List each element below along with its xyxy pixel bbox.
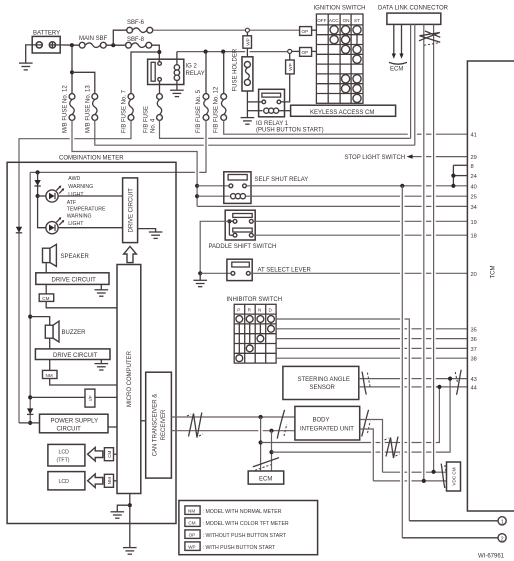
svg-text:40: 40 bbox=[471, 184, 477, 190]
wire F/B fuse7 to meter internal supply bbox=[19, 120, 131, 423]
block arrow up (micro to drive circuit) bbox=[124, 246, 137, 262]
wire drive circuit 2 to ground bbox=[100, 284, 102, 289]
node (AWD LED branch) bbox=[36, 194, 40, 198]
node (pin43 jumper) bbox=[448, 377, 452, 381]
svg-text:43: 43 bbox=[471, 377, 477, 383]
ground (IG2 relay) bbox=[170, 90, 184, 96]
drive circuit box (buzzer) bbox=[35, 349, 110, 360]
I/F box bbox=[85, 389, 95, 407]
twisted pair symbol (BIU right) bbox=[362, 410, 371, 437]
fuse SBF-6 bbox=[127, 20, 153, 33]
svg-text:38: 38 bbox=[471, 357, 477, 363]
node (pin44 jumper) bbox=[437, 385, 441, 389]
svg-text:STEERING ANGLE: STEERING ANGLE bbox=[298, 377, 350, 383]
wire M/B fuse13 to DLC bbox=[95, 120, 415, 145]
svg-text:SENSOR: SENSOR bbox=[310, 385, 336, 391]
svg-text:NM: NM bbox=[107, 477, 112, 484]
svg-text:2: 2 bbox=[501, 536, 504, 542]
svg-text:BUZZER: BUZZER bbox=[62, 330, 87, 336]
micro computer box bbox=[117, 265, 141, 494]
wire battery junction down to M/B fuses bbox=[71, 45, 73, 93]
fuse M/B FUSE No.13 bbox=[85, 85, 97, 133]
wire paddle switch to ground chain bbox=[200, 221, 229, 273]
svg-text:COMBINATION METER: COMBINATION METER bbox=[59, 156, 124, 162]
inhibitor column R contacts bbox=[246, 316, 253, 323]
svg-text:36: 36 bbox=[471, 337, 477, 343]
block arrow left (NM to LCD) bbox=[88, 474, 103, 488]
node (CAN B termination) bbox=[432, 470, 436, 474]
wire TCM pin24 stub bbox=[453, 175, 467, 177]
svg-text:N: N bbox=[258, 308, 261, 313]
CM marker box (meter) bbox=[39, 294, 54, 302]
svg-text:DRIVE CIRCUIT: DRIVE CIRCUIT bbox=[52, 277, 97, 283]
svg-text:20: 20 bbox=[471, 272, 477, 278]
wire sheet link 2 vertical bbox=[401, 186, 403, 538]
wire OP2 node down through WP2 to relay right contact bbox=[289, 53, 291, 60]
svg-text:: WITHOUT PUSH BUTTON START: : WITHOUT PUSH BUTTON START bbox=[203, 533, 287, 539]
wire drive circuit 2 to CM box bbox=[45, 284, 47, 294]
CM marker box (LCD) bbox=[104, 448, 113, 461]
svg-text:18: 18 bbox=[471, 234, 477, 240]
svg-text:CIRCUIT: CIRCUIT bbox=[57, 426, 82, 432]
node (buzzer feed) bbox=[28, 315, 32, 319]
wire CM box to micro computer bbox=[46, 301, 117, 307]
wire BIU right A to VDC line bbox=[360, 420, 383, 473]
svg-text:INTEGRATED UNIT: INTEGRATED UNIT bbox=[300, 427, 354, 433]
svg-text:IGNITION SWITCH: IGNITION SWITCH bbox=[314, 6, 366, 12]
wire ECM vertical A bbox=[260, 417, 262, 471]
svg-text:PADDLE SHIFT SWITCH: PADDLE SHIFT SWITCH bbox=[209, 244, 277, 250]
svg-text:41: 41 bbox=[471, 133, 477, 139]
svg-text:RECEIVER: RECEIVER bbox=[161, 409, 167, 440]
svg-text:AT SELECT LEVER: AT SELECT LEVER bbox=[258, 267, 312, 273]
svg-text:CM: CM bbox=[42, 296, 49, 301]
wire feed to buzzer bbox=[30, 317, 50, 326]
wire F/B fuse5 to combination meter feed bbox=[30, 120, 206, 423]
fuse F/B FUSE No.5 bbox=[196, 52, 209, 133]
speaker bbox=[43, 244, 90, 266]
svg-text:ACC: ACC bbox=[329, 18, 339, 23]
svg-text:IG 2: IG 2 bbox=[186, 64, 198, 70]
svg-text:SPEAKER: SPEAKER bbox=[61, 254, 90, 260]
wire junction to select lever bbox=[200, 272, 231, 274]
wire inhibitor row2 to TCM pin35 bbox=[276, 328, 467, 330]
wire feed to self shut contact bbox=[197, 185, 229, 187]
wire IG2 coil feed line bbox=[177, 51, 245, 53]
svg-text:M/B FUSE No. 13: M/B FUSE No. 13 bbox=[85, 85, 91, 133]
ignition contacts column ON bbox=[345, 30, 347, 50]
combination meter box bbox=[7, 156, 176, 524]
AT select lever switch bbox=[227, 259, 312, 280]
ground (shift switches) bbox=[193, 280, 207, 286]
svg-text:DATA LINK CONNECTOR: DATA LINK CONNECTOR bbox=[378, 6, 449, 12]
wire SAS to TCM pin44 bbox=[359, 386, 468, 388]
wire CM marker to micro bbox=[114, 453, 118, 455]
sheet link circle 2 bbox=[498, 534, 506, 543]
wire self shut coil to TCM pin25 bbox=[246, 195, 468, 197]
svg-text:25: 25 bbox=[471, 195, 477, 201]
node (CAN B lower junction) bbox=[269, 450, 273, 454]
body integrated unit box bbox=[295, 406, 360, 440]
svg-text:STOP LIGHT SWITCH: STOP LIGHT SWITCH bbox=[345, 155, 406, 161]
paddle shift switch bbox=[209, 210, 277, 250]
svg-text:: MODEL WITH NORMAL METER: : MODEL WITH NORMAL METER bbox=[203, 509, 282, 515]
node (F/B fuse No.5 tap) bbox=[204, 50, 208, 54]
wire OP1 to ignition row1 bbox=[312, 29, 317, 31]
svg-text:VDC CM: VDC CM bbox=[452, 467, 457, 485]
svg-text:RELAY: RELAY bbox=[186, 71, 205, 77]
node (ECM branch A) bbox=[259, 415, 263, 419]
VDC CM box bbox=[447, 462, 461, 491]
node (fuse No.7 tap) bbox=[157, 50, 161, 54]
LCD box bbox=[48, 472, 85, 490]
block arrow left (CM to LCD TFT) bbox=[88, 447, 103, 461]
wire CAN transceiver to BIU line A bbox=[171, 416, 295, 418]
svg-text:CM: CM bbox=[107, 450, 112, 457]
svg-text:INHIBITOR SWITCH: INHIBITOR SWITCH bbox=[227, 297, 283, 303]
svg-text:F/B FUSE No. 7: F/B FUSE No. 7 bbox=[122, 89, 128, 133]
svg-text:OFF: OFF bbox=[317, 18, 326, 23]
wire drive circuit 3 to NM box bbox=[49, 360, 51, 371]
OP marker box 2 bbox=[300, 48, 312, 57]
wire micro computer ground chain bbox=[129, 494, 131, 548]
wire power supply to micro computer bbox=[108, 426, 117, 428]
ECM arc label (under DLC) bbox=[389, 62, 407, 64]
CAN transceiver box bbox=[146, 372, 172, 478]
svg-text:OP: OP bbox=[189, 532, 196, 537]
svg-text:: MODEL WITH COLOR TFT METER: : MODEL WITH COLOR TFT METER bbox=[203, 521, 289, 527]
ground (drive circuit 1) bbox=[149, 232, 163, 238]
twisted pair symbol (CAN W mid) bbox=[385, 437, 400, 459]
wire tap to F/B fuse No.7 bbox=[131, 52, 159, 94]
ground (battery) bbox=[19, 63, 33, 70]
wire micro computer to CAN transceiver bbox=[141, 420, 146, 422]
fuse F/B FUSE No.7 bbox=[122, 89, 134, 133]
svg-text:BODY: BODY bbox=[313, 418, 330, 424]
battery bbox=[32, 31, 60, 54]
wire inhibitor row4 to TCM pin37 bbox=[276, 347, 467, 349]
inhibitor column N contacts bbox=[257, 316, 264, 323]
node (self shut contact feed) bbox=[195, 184, 199, 188]
ground (drive circuit 2) bbox=[95, 290, 109, 296]
wire to IG relay 1 left contact bbox=[247, 101, 262, 103]
svg-text:CM: CM bbox=[188, 520, 195, 525]
node (CAN A termination) bbox=[422, 479, 426, 483]
inhibitor switch bbox=[227, 297, 283, 363]
wire drive circuit 3 to ground bbox=[100, 360, 102, 364]
node (sheet link 2 tap on pin40 line) bbox=[400, 184, 404, 188]
wire self shut contact to TCM pin40 bbox=[246, 185, 467, 187]
wire to AWD LED bbox=[38, 195, 46, 197]
fuse holder bbox=[233, 48, 253, 91]
wire CAN line to TCM pin43 jumper bbox=[272, 379, 451, 453]
legend OP bbox=[185, 530, 200, 539]
legend WP bbox=[185, 542, 200, 551]
inhibitor column D contacts bbox=[268, 316, 275, 323]
wire sheet link 1 to circle 1 bbox=[409, 520, 498, 522]
svg-text:KEYLESS ACCESS CM: KEYLESS ACCESS CM bbox=[310, 110, 374, 116]
svg-text:44: 44 bbox=[471, 385, 477, 391]
wire speaker to drive circuit 2 bbox=[45, 263, 47, 273]
wire F/B fuse12 to TCM pin41 bbox=[224, 120, 468, 134]
relay SELF SHUT RELAY bbox=[224, 172, 308, 204]
node open circle (WP branch to OP2) bbox=[288, 49, 292, 53]
drive circuit box (warning lights) bbox=[123, 178, 138, 243]
svg-text:F/B FUSE: F/B FUSE bbox=[144, 106, 150, 133]
svg-text:WARNING: WARNING bbox=[67, 213, 92, 219]
wire DLC line down to fuse13 line bbox=[414, 24, 416, 145]
svg-text:: WITH PUSH BUTTON START: : WITH PUSH BUTTON START bbox=[203, 545, 276, 551]
wire to power supply circuit bbox=[19, 422, 40, 424]
legend NM bbox=[185, 506, 200, 515]
svg-text:MICRO COMPUTER: MICRO COMPUTER bbox=[127, 350, 133, 407]
wire CAN A vertical bbox=[423, 24, 425, 481]
diode (power supply feed 1) on x=19 bbox=[16, 227, 22, 233]
node open circle on SBF-6 line bbox=[245, 28, 249, 32]
wire fuse holder bottom down to relay/ground bbox=[246, 91, 248, 117]
wire open node to OP2 and to ignition row3 bbox=[292, 50, 300, 52]
wire inhibitor row1 to sheet link bbox=[276, 319, 409, 521]
fuse SBF-8 bbox=[126, 37, 152, 48]
svg-text:LIGHT: LIGHT bbox=[68, 221, 84, 227]
svg-text:DRIVE CIRCUIT: DRIVE CIRCUIT bbox=[129, 188, 135, 233]
wire battery negative to ground bbox=[26, 45, 36, 63]
inhibitor column P contacts bbox=[236, 316, 243, 323]
twisted pair symbol (transceiver W) bbox=[187, 413, 203, 438]
node (ground junction) bbox=[128, 503, 132, 507]
wire buzzer to drive circuit 3 bbox=[49, 338, 51, 349]
drive circuit box (speaker) bbox=[36, 273, 109, 285]
wire F/B fuse4 to DLC bbox=[160, 120, 411, 138]
fuse M/B FUSE No.12 bbox=[63, 85, 75, 133]
wire sheet link 2 to circle 2 bbox=[402, 537, 498, 539]
node (jumper at pin24) bbox=[451, 174, 455, 178]
node (F/B fuse No.12 tap) bbox=[221, 50, 225, 54]
wire branch to TCM pin34 bbox=[197, 205, 467, 207]
wire NM marker to micro bbox=[114, 480, 118, 482]
wire ECM vertical B bbox=[271, 431, 273, 471]
wire VDC CM line A bbox=[383, 471, 447, 473]
WP marker box 2 bbox=[286, 60, 295, 74]
node (power supply junction) bbox=[28, 421, 32, 425]
wire drive circuit to ground bbox=[138, 229, 156, 232]
LCD (TFT) box bbox=[48, 444, 85, 466]
sheet link circle 1 bbox=[498, 517, 506, 526]
wire paddle row2 to TCM pin18 bbox=[253, 234, 467, 236]
svg-text:SBF-8: SBF-8 bbox=[127, 37, 145, 43]
wire SBF-8 to IG2 relay contact bbox=[152, 45, 160, 62]
svg-text:(TFT): (TFT) bbox=[57, 457, 70, 463]
wire inhibitor row3 to TCM pin36 bbox=[276, 338, 467, 340]
svg-text:CAN TRANSCEIVER &: CAN TRANSCEIVER & bbox=[153, 394, 159, 457]
wire select lever to TCM pin20 bbox=[250, 272, 467, 274]
LED ATF temperature warning light bbox=[46, 200, 106, 234]
node (jumper at pin40) bbox=[451, 184, 455, 188]
buzzer bbox=[45, 321, 86, 342]
wire battery positive to MAIN SBF bbox=[56, 44, 80, 46]
wire stop light switch to TCM pin29 bbox=[412, 156, 467, 158]
legend CM bbox=[185, 518, 200, 527]
OP marker box 1 bbox=[300, 27, 312, 36]
node (ECM branch B) bbox=[269, 429, 273, 433]
node (battery feed junction) bbox=[70, 43, 74, 47]
wire junction to ground bbox=[199, 273, 201, 280]
wire IG2 coil top to feed line bbox=[176, 52, 178, 65]
svg-text:35: 35 bbox=[471, 327, 477, 333]
twisted pair symbol (ECM pair) bbox=[253, 458, 279, 471]
svg-text:AWD: AWD bbox=[68, 176, 80, 182]
wire AWD LED to drive circuit bbox=[58, 195, 123, 197]
wire jumper pins 8-24-40 bbox=[452, 165, 454, 186]
svg-text:BATTERY: BATTERY bbox=[33, 31, 60, 37]
svg-text:24: 24 bbox=[471, 174, 477, 180]
node (meter feed to warning lights) bbox=[36, 170, 40, 174]
SEC8 legend bbox=[179, 501, 318, 555]
svg-text:WP: WP bbox=[288, 63, 293, 70]
svg-text:37: 37 bbox=[471, 347, 477, 353]
wire inhibitor row5 to TCM pin38 bbox=[276, 357, 467, 359]
ground (drive circuit 3) bbox=[95, 364, 109, 370]
wire CAN B vertical bbox=[433, 24, 435, 471]
twisted pair symbol (SAS output) bbox=[362, 372, 370, 395]
wire SBF-6 node through WP1 to fuse holder bbox=[246, 32, 248, 36]
fuse F/B FUSE No.4 bbox=[144, 94, 163, 133]
wire SAS to TCM pin43 bbox=[359, 378, 468, 380]
WP marker box 1 bbox=[243, 36, 252, 48]
ignition switch table bbox=[314, 6, 366, 104]
steering angle sensor box bbox=[283, 366, 359, 399]
wire up to SBF-6 bbox=[113, 30, 126, 45]
svg-text:TCM: TCM bbox=[491, 266, 497, 279]
wire MAIN SBF to SBF-8 bbox=[106, 44, 125, 46]
twisted pair symbol (BIU left) bbox=[277, 410, 287, 439]
wire IG relay1 coil right to keyless bbox=[279, 110, 291, 112]
data link connector bbox=[378, 6, 449, 25]
wire I/F line to micro computer bbox=[30, 396, 117, 398]
svg-text:(PUSH BUTTON START): (PUSH BUTTON START) bbox=[256, 127, 324, 133]
svg-text:OP: OP bbox=[302, 29, 309, 34]
wire IG2 coil bottom to ground bbox=[176, 81, 178, 90]
svg-text:8: 8 bbox=[471, 164, 474, 170]
fuse F/B FUSE No.12 bbox=[214, 52, 227, 133]
ignition contacts column ST bbox=[356, 30, 358, 59]
relay IG RELAY 1 bbox=[256, 89, 324, 133]
wire DLC K-line down to fuse4 line bbox=[410, 24, 412, 138]
svg-text:DRIVE CIRCUIT: DRIVE CIRCUIT bbox=[53, 353, 98, 359]
twisted pair symbol (VDC CM) bbox=[441, 464, 447, 488]
node (self shut coil feed) bbox=[195, 194, 199, 198]
wire VDC CM line B bbox=[373, 480, 446, 482]
svg-text:WARNING: WARNING bbox=[68, 184, 93, 190]
svg-text:ECM: ECM bbox=[259, 477, 272, 483]
wire BIU right B to VDC line bbox=[360, 429, 374, 481]
diode (warning light chain) bbox=[34, 180, 40, 186]
wire M/B fuse12 to self-shut relay branch bbox=[72, 120, 197, 206]
TCM box bbox=[467, 61, 514, 511]
wire SBF-6 to OP1 (keyless power) bbox=[153, 29, 246, 31]
wire TCM pin8 stub bbox=[453, 164, 467, 166]
svg-text:SELF SHUT RELAY: SELF SHUT RELAY bbox=[255, 177, 309, 183]
svg-text:LCD: LCD bbox=[59, 450, 70, 456]
twisted pair symbol (below DLC) bbox=[419, 31, 440, 45]
ground (meter internal) bbox=[111, 512, 125, 518]
svg-text:19: 19 bbox=[471, 220, 477, 226]
svg-text:F/B FUSE No. 12: F/B FUSE No. 12 bbox=[214, 86, 220, 133]
ground (chassis bottom) bbox=[123, 548, 137, 555]
svg-text:1: 1 bbox=[501, 519, 504, 525]
wire warning light chain bbox=[37, 172, 39, 196]
ground (IG relay 1) bbox=[241, 118, 255, 125]
node (select lever ground junction) bbox=[198, 271, 202, 275]
node (CAN A lower junction) bbox=[259, 440, 263, 444]
svg-text:ECM: ECM bbox=[390, 67, 403, 73]
svg-text:IG RELAY 1: IG RELAY 1 bbox=[256, 121, 289, 127]
relay IG 2 RELAY bbox=[148, 59, 205, 84]
svg-text:SBF-6: SBF-6 bbox=[127, 20, 145, 26]
svg-text:ON: ON bbox=[343, 18, 350, 23]
node (I/F feed) bbox=[28, 395, 32, 399]
svg-text:LIGHT: LIGHT bbox=[68, 192, 84, 198]
svg-text:POWER SUPPLY: POWER SUPPLY bbox=[51, 418, 99, 424]
svg-text:ATF: ATF bbox=[67, 200, 76, 206]
keyless access CM box bbox=[291, 105, 396, 116]
wire to meter ground bbox=[117, 505, 130, 511]
svg-text:F/B FUSE No. 5: F/B FUSE No. 5 bbox=[196, 89, 202, 133]
svg-text:WI-67961: WI-67961 bbox=[478, 554, 505, 560]
svg-text:ST: ST bbox=[354, 18, 360, 23]
svg-text:TEMPERATURE: TEMPERATURE bbox=[67, 206, 106, 212]
svg-text:MAIN SBF: MAIN SBF bbox=[79, 36, 108, 42]
svg-text:FUSE HOLDER: FUSE HOLDER bbox=[233, 48, 239, 91]
power supply circuit box bbox=[40, 414, 109, 433]
wire feed to self shut coil bbox=[197, 195, 229, 197]
NM marker box (meter) bbox=[43, 370, 58, 378]
svg-text:OP: OP bbox=[302, 50, 309, 55]
svg-text:29: 29 bbox=[471, 155, 477, 161]
diode (power supply feed 2) on x=30 bbox=[27, 408, 33, 414]
svg-text:LCD: LCD bbox=[59, 479, 70, 485]
node (SBF-6 tap) bbox=[111, 43, 115, 47]
wire chain down to ATF LED bbox=[38, 196, 46, 228]
svg-text:WP: WP bbox=[188, 544, 195, 549]
wire CAN line to TCM pin44 jumper bbox=[261, 387, 440, 443]
wire IG2 contact bottom to F/B fuse No.4 bbox=[159, 81, 161, 93]
svg-text:M/B FUSE No. 12: M/B FUSE No. 12 bbox=[63, 85, 69, 133]
svg-text:WP: WP bbox=[245, 38, 250, 45]
wire ATF LED to drive circuit bbox=[58, 227, 123, 229]
wire NM box to micro computer bbox=[50, 379, 117, 386]
ignition contacts column ACC bbox=[333, 30, 335, 40]
svg-text:NM: NM bbox=[188, 508, 195, 513]
ECM box bbox=[248, 471, 284, 484]
fuse MAIN SBF bbox=[79, 36, 108, 48]
svg-text:34: 34 bbox=[471, 205, 477, 211]
NM marker box (LCD) bbox=[104, 474, 113, 487]
LED AWD warning light bbox=[46, 176, 93, 202]
wire DLC pin to ECM arrow 1 bbox=[393, 24, 395, 54]
twisted pair symbol (at TCM 43/44) bbox=[455, 370, 461, 395]
svg-text:NM: NM bbox=[46, 373, 53, 378]
wire CAN transceiver to BIU line B bbox=[171, 430, 295, 432]
svg-text:I/F: I/F bbox=[88, 395, 93, 401]
svg-text:No. 4: No. 4 bbox=[151, 118, 157, 133]
wire paddle row1 to TCM pin19 bbox=[253, 220, 467, 222]
wire to IG relay 1 coil left bbox=[247, 110, 262, 112]
wire DLC pin to ECM arrow 2 bbox=[401, 24, 403, 54]
svg-text:P: P bbox=[237, 308, 240, 313]
